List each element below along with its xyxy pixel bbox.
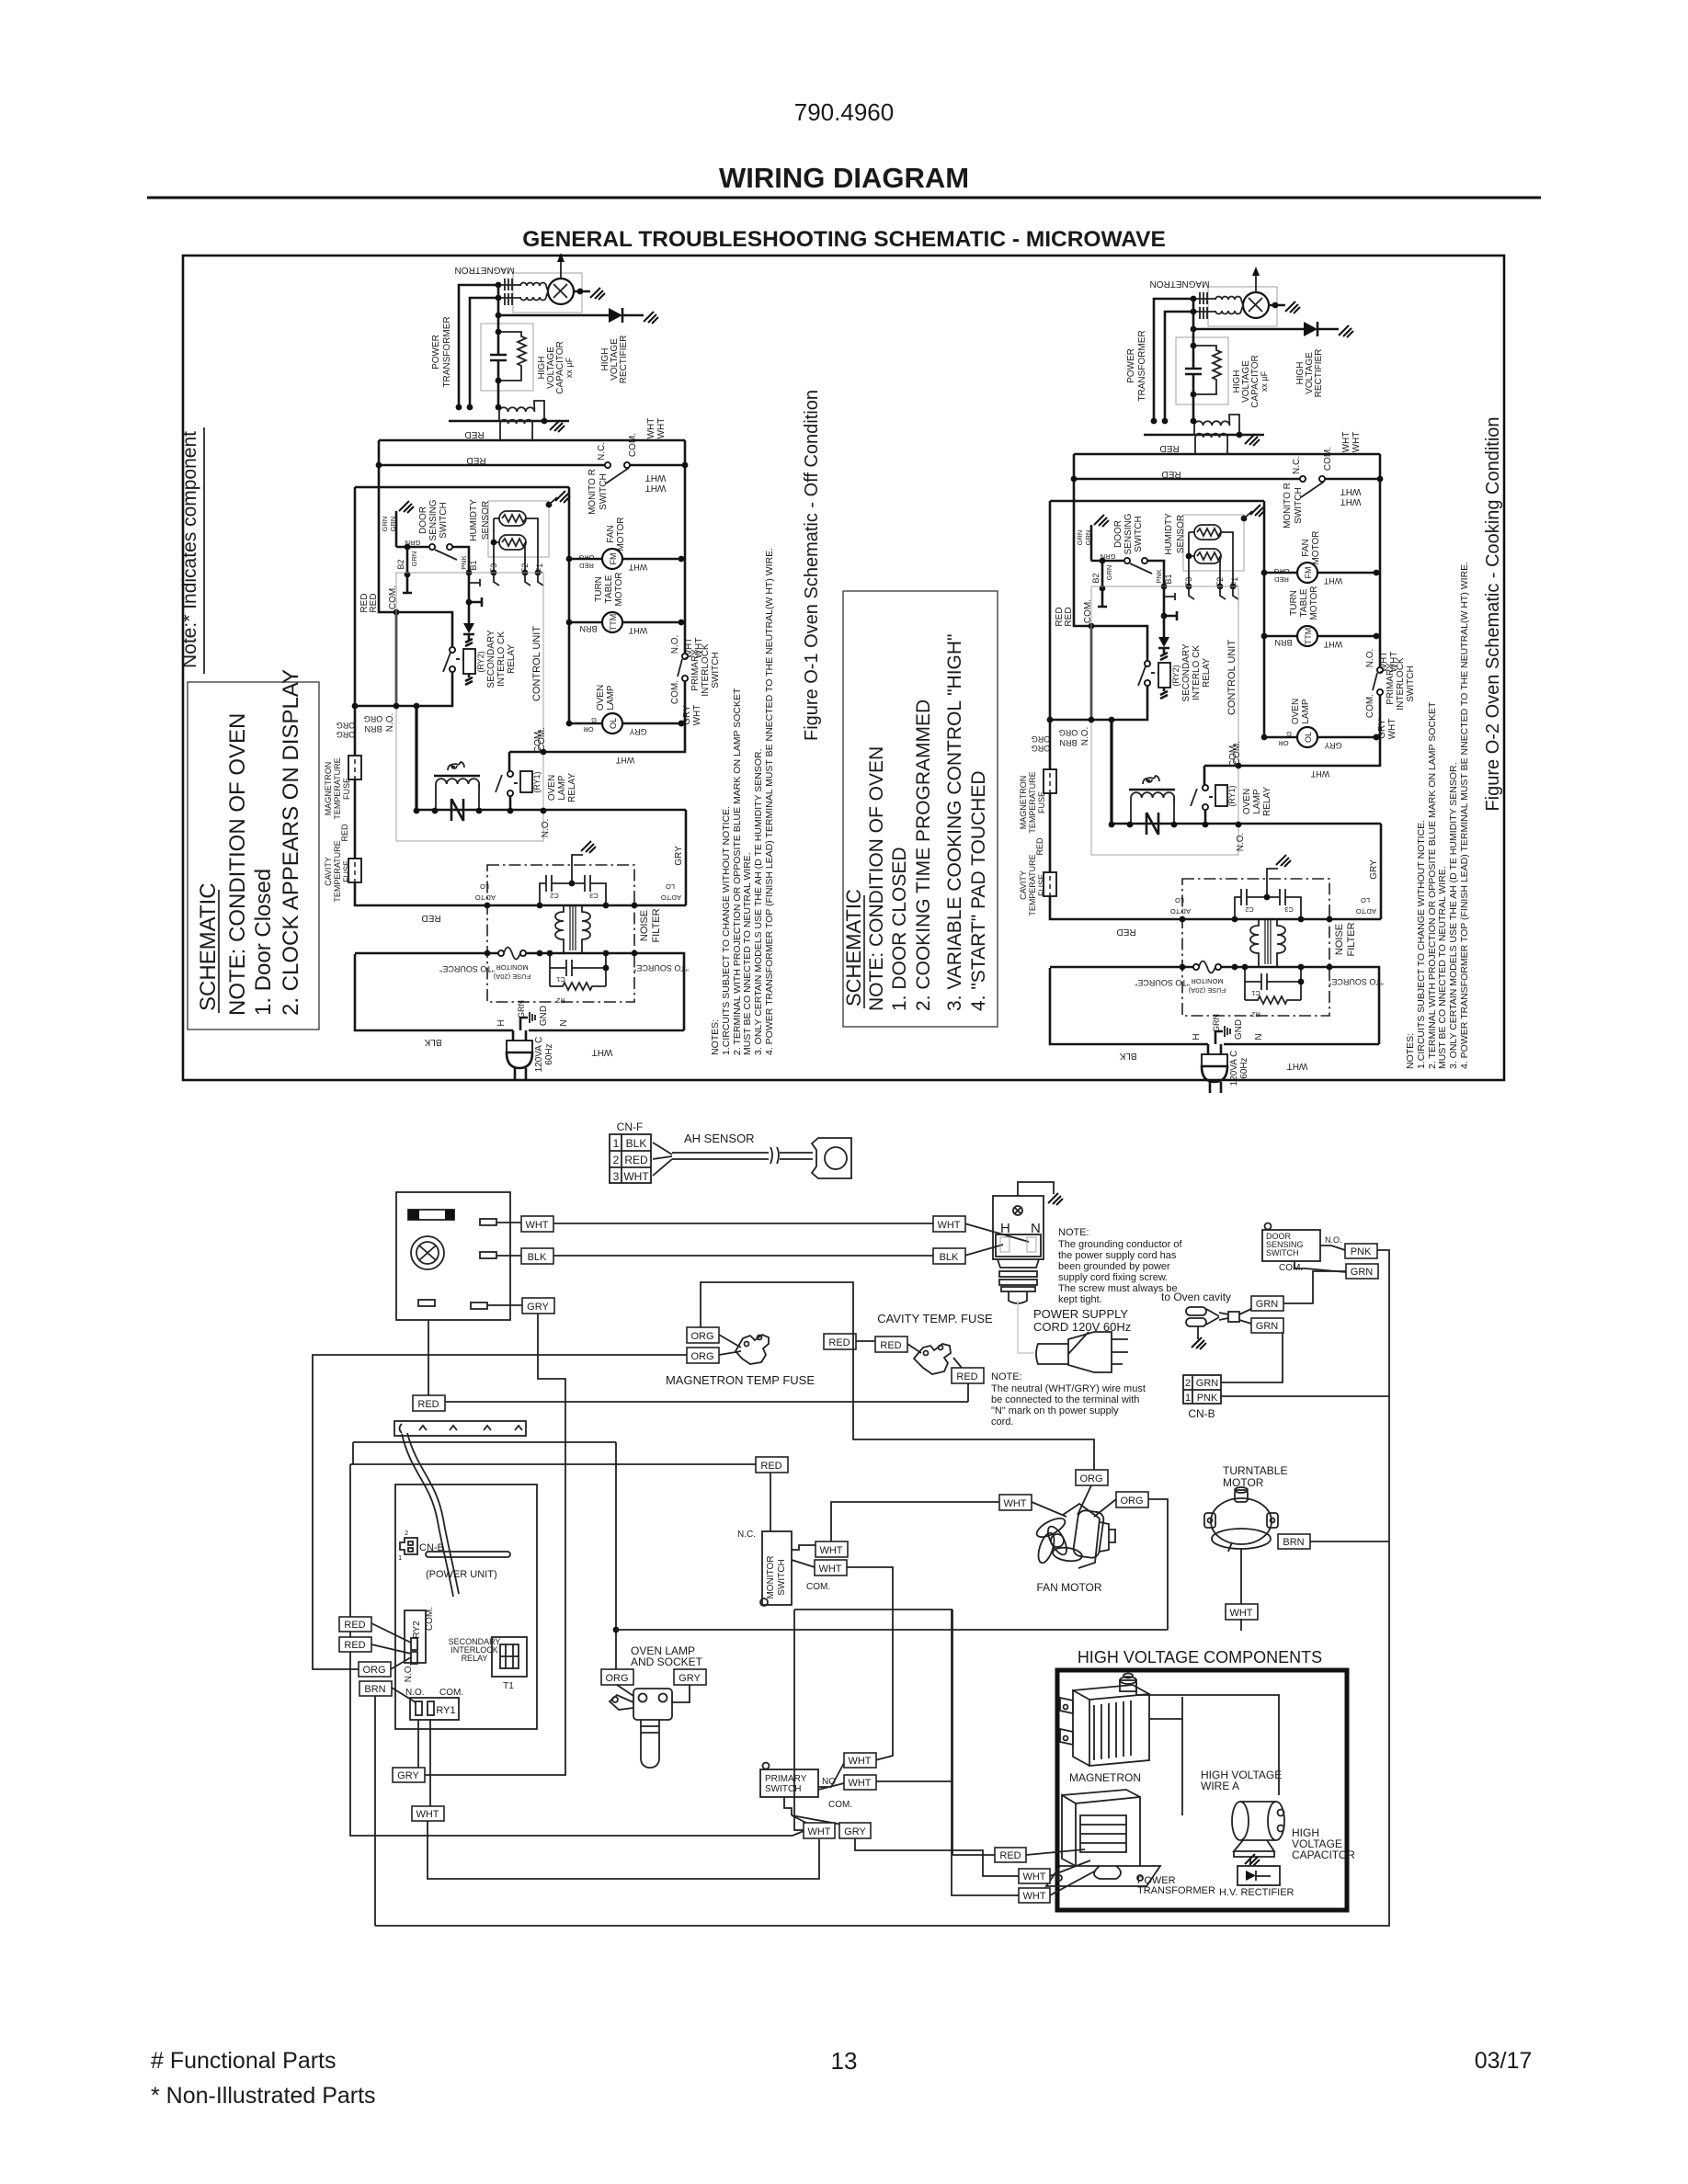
svg-text:LO: LO — [666, 882, 675, 891]
svg-text:kept tight.: kept tight. — [1058, 1294, 1102, 1305]
svg-text:WHT: WHT — [1022, 1871, 1045, 1883]
svg-text:BRN: BRN — [1283, 1537, 1304, 1548]
svg-text:B1: B1 — [469, 560, 478, 570]
svg-text:FAN MOTOR: FAN MOTOR — [1036, 1581, 1101, 1594]
wht under fan — [1226, 1604, 1258, 1620]
hv capacitor 3d — [1232, 1802, 1284, 1857]
svg-text:WHT: WHT — [937, 1220, 960, 1231]
svg-text:MONITO R: MONITO R — [587, 469, 598, 515]
svg-text:N.C.: N.C. — [597, 442, 607, 461]
svg-text:RED: RED — [421, 913, 440, 923]
svg-text:2: 2 — [613, 1154, 620, 1166]
svg-text:RED: RED — [464, 429, 484, 439]
svg-text:MONITOR: MONITOR — [766, 1555, 776, 1598]
AH sensor cable — [653, 1143, 813, 1176]
svg-text:AH SENSOR: AH SENSOR — [684, 1132, 755, 1145]
svg-text:N.O.: N.O. — [385, 713, 395, 733]
svg-text:H.V. RECTIFIER: H.V. RECTIFIER — [1219, 1887, 1295, 1898]
svg-text:HUMIDTY: HUMIDTY — [469, 499, 479, 541]
svg-text:POWER SUPPLY: POWER SUPPLY — [1033, 1307, 1128, 1321]
svg-text:N.O.: N.O. — [404, 1664, 414, 1683]
svg-text:F1: F1 — [535, 563, 544, 574]
svg-text:FUSE: FUSE — [342, 778, 351, 800]
svg-text:CAVITY TEMP. FUSE: CAVITY TEMP. FUSE — [877, 1312, 993, 1325]
noise filter dash-dot box — [487, 865, 634, 1002]
svg-text:3. ONLY CERTAIN MODELS USE TH: 3. ONLY CERTAIN MODELS USE THE AH (D TE … — [753, 748, 764, 1055]
svg-text:4. POWER TRANSFORMER TOP (FINI: 4. POWER TRANSFORMER TOP (FINISH LEAD) T… — [764, 548, 775, 1055]
svg-text:GRN: GRN — [1256, 1299, 1279, 1310]
svg-text:RED: RED — [344, 1640, 365, 1651]
svg-text:RED: RED — [956, 1371, 977, 1382]
control unit box — [396, 573, 543, 841]
svg-text:13: 13 — [831, 2047, 858, 2075]
wire left RED rail with fuses — [355, 487, 686, 905]
svg-text:WHT: WHT — [645, 472, 667, 483]
svg-text:LAMP: LAMP — [606, 685, 616, 711]
svg-text:GRN: GRN — [1256, 1321, 1279, 1332]
svg-text:GRY: GRY — [844, 1826, 866, 1837]
svg-text:3: 3 — [613, 1170, 620, 1183]
svg-text:been grounded by power: been grounded by power — [1058, 1261, 1170, 1272]
svg-text:1: 1 — [1185, 1393, 1191, 1404]
svg-text:be connected to the terminal w: be connected to the terminal with — [991, 1394, 1139, 1405]
svg-text:COM.: COM. — [537, 727, 547, 751]
svg-text:TRANSFORMER: TRANSFORMER — [442, 316, 452, 387]
power unit — [395, 1484, 537, 1729]
HV rectifier diode — [498, 314, 644, 317]
svg-text:3. VARIABLE COOKING CONTROL "H: 3. VARIABLE COOKING CONTROL "HIGH" — [944, 634, 965, 1011]
svg-text:COM.: COM. — [670, 680, 680, 704]
svg-text:WHT: WHT — [646, 418, 656, 439]
svg-text:WHT: WHT — [1003, 1498, 1026, 1509]
svg-text:"N" mark on th power sup: "N" mark on th power supply — [991, 1405, 1119, 1416]
svg-text:TURNTABLE: TURNTABLE — [1223, 1464, 1287, 1477]
wire ORG row — [355, 672, 452, 706]
svg-text:ORG: ORG — [362, 1665, 385, 1676]
svg-text:NOTES:: NOTES: — [710, 1019, 721, 1055]
fan motor drawing — [1034, 1504, 1115, 1568]
svg-text:RED: RED — [369, 593, 379, 612]
svg-text:GRN: GRN — [405, 539, 421, 547]
svg-text:TTM: TTM — [609, 614, 618, 631]
svg-text:GENERAL TROUBLESHOOTING SCHEMA: GENERAL TROUBLESHOOTING SCHEMATIC - MICR… — [522, 227, 1166, 252]
svg-text:60Hz: 60Hz — [544, 1043, 554, 1064]
magnetron temperature fuse — [348, 859, 361, 882]
svg-text:NOTE: CONDITION OF OVEN: NOTE: CONDITION OF OVEN — [225, 713, 250, 1016]
svg-text:2. CLOCK APPEARS ON DISPLAY: 2. CLOCK APPEARS ON DISPLAY — [279, 669, 303, 1016]
svg-text:(RY2): (RY2) — [476, 651, 485, 672]
svg-text:SCHEMATIC: SCHEMATIC — [842, 889, 865, 1007]
door sensing switch — [1265, 1223, 1272, 1230]
svg-text:N.O.: N.O. — [405, 1688, 425, 1698]
svg-text:POWER: POWER — [431, 335, 441, 370]
svg-text:COM.: COM. — [425, 1607, 435, 1631]
svg-text:FILTER: FILTER — [651, 908, 662, 942]
svg-text:ORG: ORG — [690, 1351, 713, 1362]
svg-text:SWITCH: SWITCH — [711, 652, 721, 688]
svg-text:BLK: BLK — [940, 1252, 959, 1263]
turntable motor TTM — [602, 612, 622, 632]
svg-text:RED: RED — [880, 1340, 901, 1351]
filter capacitors C2 C3 — [540, 855, 606, 904]
flat cable — [402, 1433, 459, 1597]
svg-text:1. Door Closed: 1. Door Closed — [251, 869, 276, 1016]
long wire row — [353, 1442, 995, 1855]
svg-text:WHT: WHT — [592, 1047, 613, 1057]
svg-text:ORG: ORG — [605, 1673, 628, 1684]
svg-text:CN-B: CN-B — [419, 1542, 444, 1553]
svg-text:H: H — [496, 1019, 507, 1026]
svg-text:COM.: COM. — [439, 1688, 463, 1698]
C1 and R2 — [550, 953, 606, 986]
svg-text:N.O.: N.O. — [670, 635, 680, 654]
control panel box — [396, 1192, 510, 1320]
svg-text:BLK: BLK — [626, 1137, 647, 1150]
svg-text:OVEN: OVEN — [596, 685, 606, 711]
svg-text:WHT: WHT — [1229, 1608, 1252, 1619]
svg-text:WHT: WHT — [807, 1826, 830, 1837]
svg-text:2. COOKING TIME PROGRAMMED: 2. COOKING TIME PROGRAMMED — [913, 700, 934, 1011]
svg-text:The neutral (WHT/GRY) wire mus: The neutral (WHT/GRY) wire must — [991, 1383, 1146, 1394]
svg-text:G: G — [591, 716, 597, 724]
svg-text:C3: C3 — [589, 892, 599, 900]
svg-text:WHT: WHT — [525, 1220, 548, 1231]
plug drawing — [1036, 1332, 1128, 1372]
svg-text:TURN: TURN — [594, 576, 604, 602]
svg-text:COM.: COM. — [628, 433, 638, 457]
svg-text:RECTIFIER: RECTIFIER — [619, 336, 629, 384]
AH sensor head — [812, 1138, 851, 1178]
svg-text:BRN: BRN — [579, 624, 597, 633]
svg-text:120VA C: 120VA C — [534, 1037, 544, 1073]
magnetron temp fuse — [687, 1327, 719, 1343]
humidity sensor — [488, 501, 549, 557]
svg-text:GRY: GRY — [674, 846, 684, 866]
svg-text:RED: RED — [340, 824, 349, 842]
svg-text:1: 1 — [398, 1553, 402, 1562]
svg-text:1. DOOR CLOSED: 1. DOOR CLOSED — [889, 847, 910, 1011]
svg-text:RY2: RY2 — [412, 1621, 422, 1639]
power inlet terminal block — [1018, 1182, 1054, 1196]
svg-text:RED: RED — [417, 1399, 439, 1410]
red wire from panel — [428, 1320, 429, 1395]
svg-text:GND: GND — [539, 1006, 549, 1026]
svg-text:PNK: PNK — [1351, 1246, 1372, 1257]
svg-text:SWITCH: SWITCH — [439, 502, 449, 538]
svg-text:ORG: ORG — [578, 553, 594, 562]
svg-text:AND SOCKET: AND SOCKET — [631, 1655, 703, 1668]
svg-text:WHT: WHT — [645, 483, 667, 493]
svg-text:790.4960: 790.4960 — [794, 98, 894, 126]
svg-text:MUST BE CO NNECTED TO NEUTRAL: MUST BE CO NNECTED TO NEUTRAL WIRE. — [742, 852, 753, 1055]
svg-text:TABLE: TABLE — [604, 574, 614, 603]
monitor switch — [605, 462, 610, 468]
svg-text:AD': AD' — [670, 893, 681, 902]
svg-text:WHT: WHT — [656, 418, 667, 439]
svg-text:B2: B2 — [396, 559, 405, 569]
svg-text:CN-B: CN-B — [1188, 1407, 1215, 1420]
primary interlock switch — [682, 654, 688, 659]
monitor fuse 20A — [498, 950, 504, 956]
svg-text:PNK: PNK — [460, 555, 468, 569]
svg-text:WHT: WHT — [692, 705, 702, 726]
svg-text:"TO SOURCE": "TO SOURCE" — [439, 964, 495, 973]
svg-text:TO: TO — [475, 893, 485, 902]
svg-text:DOOR: DOOR — [418, 506, 428, 534]
svg-text:xx µF: xx µF — [565, 357, 574, 378]
svg-text:INTERLO CK: INTERLO CK — [496, 631, 507, 687]
svg-text:CORD 120V 60Hz: CORD 120V 60Hz — [1033, 1320, 1131, 1334]
svg-text:SWITCH: SWITCH — [599, 473, 609, 509]
svg-text:AD': AD' — [485, 893, 496, 902]
svg-text:FUSE: FUSE — [342, 860, 351, 882]
svg-text:INTERLOCK: INTERLOCK — [701, 643, 711, 697]
svg-text:RED: RED — [828, 1337, 850, 1348]
hv rectifier — [1249, 1857, 1251, 1864]
svg-text:CAVITY: CAVITY — [324, 857, 333, 886]
monitor switch — [762, 1531, 792, 1605]
svg-text:WHT: WHT — [819, 1545, 842, 1556]
power transformer — [449, 420, 569, 423]
svg-text:cord.: cord. — [991, 1416, 1013, 1428]
svg-text:Note:* Indicates component: Note:* Indicates component — [179, 431, 200, 668]
power transformer 3d — [1046, 1790, 1160, 1886]
svg-text:The grounding conductor of: The grounding conductor of — [1058, 1239, 1182, 1250]
cavity temperature fuse — [348, 756, 361, 779]
left note box — [188, 682, 319, 1029]
svg-text:Figure O-1 Oven Schematic - Of: Figure O-1 Oven Schematic - Off Conditio… — [802, 390, 822, 741]
RY2 secondary interlock relay — [405, 1610, 426, 1663]
svg-text:N.O.: N.O. — [541, 819, 551, 838]
svg-text:BLK: BLK — [424, 1037, 441, 1047]
svg-text:03/17: 03/17 — [1475, 2048, 1533, 2074]
svg-text:RED: RED — [624, 1154, 648, 1166]
wht to fan — [831, 1502, 999, 1541]
power plug 120VAC — [513, 1018, 528, 1041]
svg-text:GRY: GRY — [679, 1673, 701, 1684]
svg-text:Figure O-2 Oven Schematic - Co: Figure O-2 Oven Schematic - Cooking Cond… — [1483, 416, 1503, 811]
svg-text:LAMP: LAMP — [557, 775, 567, 801]
svg-text:SCHEMATIC: SCHEMATIC — [196, 882, 221, 1011]
svg-text:2: 2 — [405, 1529, 408, 1537]
svg-text:# Functional Parts: # Functional Parts — [151, 2048, 336, 2074]
svg-text:NOTE:: NOTE: — [1058, 1227, 1089, 1238]
fan motor FM — [602, 549, 622, 569]
svg-text:TO: TO — [661, 893, 670, 902]
svg-text:"TO SOURCE": "TO SOURCE" — [633, 963, 689, 973]
outer schematic box — [183, 256, 1504, 1080]
svg-text:F2: F2 — [520, 563, 530, 574]
svg-text:SENSOR: SENSOR — [481, 501, 491, 540]
primary coil — [500, 420, 532, 440]
CN-B table — [1183, 1375, 1221, 1404]
svg-text:SECONDARY: SECONDARY — [486, 630, 496, 688]
svg-text:SENSING: SENSING — [428, 499, 439, 540]
wht blk gry labels — [521, 1216, 553, 1232]
svg-text:GRN: GRN — [1196, 1378, 1219, 1389]
HV secondary coil — [499, 401, 544, 421]
svg-text:PRIMARY: PRIMARY — [690, 649, 701, 691]
dots on filter rows — [485, 903, 491, 909]
svg-text:COM.: COM. — [828, 1800, 852, 1810]
svg-text:MAGNETRON: MAGNETRON — [1069, 1771, 1141, 1784]
svg-text:ORG: ORG — [336, 721, 356, 730]
svg-text:GRN: GRN — [517, 1000, 526, 1018]
svg-text:RELAY: RELAY — [462, 1654, 488, 1663]
wht long loop down to primary switch area — [847, 1567, 893, 1760]
orange boxes near fan — [1076, 1470, 1108, 1485]
svg-text:F3: F3 — [489, 563, 498, 574]
svg-text:RED: RED — [466, 455, 485, 465]
SCHEM — [313, 1120, 1389, 1926]
svg-text:WIRING DIAGRAM: WIRING DIAGRAM — [719, 162, 969, 194]
svg-text:GRY: GRY — [629, 727, 646, 736]
svg-text:MAGNETRON: MAGNETRON — [324, 762, 333, 816]
filter rows — [355, 953, 684, 1030]
svg-text:GRN: GRN — [389, 517, 397, 532]
svg-text:OVEN: OVEN — [547, 775, 557, 801]
svg-text:RELAY: RELAY — [567, 773, 577, 802]
svg-text:ORG: ORG — [364, 714, 383, 723]
svg-text:GRN: GRN — [410, 552, 418, 567]
svg-text:WHT: WHT — [1022, 1891, 1045, 1902]
gray wire down — [423, 1314, 565, 1775]
svg-text:WHT: WHT — [615, 756, 634, 765]
svg-text:N: N — [559, 1019, 569, 1026]
svg-text:C2: C2 — [550, 892, 559, 900]
svg-text:OR: OR — [583, 725, 594, 734]
svg-text:NOTE:: NOTE: — [991, 1371, 1022, 1382]
svg-text:HIGH VOLTAGE COMPONENTS: HIGH VOLTAGE COMPONENTS — [1078, 1648, 1322, 1666]
RED to monitor switch — [350, 1464, 804, 1836]
primary switch — [763, 1763, 770, 1769]
svg-text:(RY1): (RY1) — [532, 771, 542, 792]
right note box — [843, 591, 998, 1027]
wire control column — [415, 706, 417, 811]
svg-text:WIRE A: WIRE A — [1201, 1780, 1239, 1792]
high voltage capacitor — [481, 324, 533, 391]
bracket strip — [394, 1421, 526, 1436]
svg-text:MAGNETRON TEMP FUSE: MAGNETRON TEMP FUSE — [666, 1373, 815, 1387]
svg-text:RED: RED — [999, 1850, 1021, 1861]
svg-text:GRN: GRN — [381, 517, 389, 532]
wire rails — [379, 440, 685, 771]
secondary interlock relay RY2 — [469, 573, 482, 623]
svg-text:C1: C1 — [556, 975, 565, 984]
svg-text:MAGNETRON: MAGNETRON — [455, 265, 515, 275]
svg-text:BRN: BRN — [364, 724, 382, 734]
svg-text:(POWER UNIT): (POWER UNIT) — [426, 1569, 497, 1580]
svg-text:MONITOR: MONITOR — [496, 963, 529, 972]
svg-text:FAN: FAN — [606, 525, 616, 542]
svg-text:N.C.: N.C. — [737, 1530, 756, 1540]
svg-text:FM: FM — [609, 553, 618, 565]
svg-text:TRANSFORMER: TRANSFORMER — [1137, 1885, 1215, 1896]
oven lamp relay RY1 — [508, 771, 513, 777]
svg-text:supply cord fixing screw.: supply cord fixing screw. — [1058, 1272, 1168, 1283]
svg-text:RED: RED — [344, 1620, 365, 1631]
filter transformer coils — [555, 904, 564, 953]
svg-text:the power supply cord has: the power supply cord has — [1058, 1250, 1177, 1261]
svg-text:BRN: BRN — [364, 1684, 385, 1695]
magnetron 3d — [1060, 1674, 1149, 1767]
gry/wht lower-left labels — [393, 1768, 425, 1782]
svg-text:PRIMARY: PRIMARY — [765, 1774, 807, 1784]
svg-text:CAPACITOR: CAPACITOR — [1292, 1848, 1355, 1861]
svg-text:NOISE: NOISE — [639, 910, 650, 941]
svg-text:* Non-Illustrated Parts: * Non-Illustrated Parts — [151, 2083, 376, 2109]
svg-text:CONTROL UNIT: CONTROL UNIT — [531, 626, 542, 701]
svg-text:WHT: WHT — [848, 1778, 871, 1789]
svg-text:SWITCH: SWITCH — [1266, 1248, 1299, 1257]
oven lamp transformer with N — [434, 775, 480, 778]
svg-text:ORG: ORG — [336, 730, 356, 739]
svg-text:GRY: GRY — [397, 1770, 419, 1781]
svg-text:SWITCH: SWITCH — [777, 1559, 787, 1595]
svg-text:RY1: RY1 — [436, 1705, 455, 1716]
svg-text:TEMPERATURE: TEMPERATURE — [333, 757, 342, 819]
pink long loop — [375, 1250, 1389, 1926]
svg-text:CN-F: CN-F — [617, 1120, 644, 1133]
long wires to inlet — [553, 1223, 1029, 1256]
svg-text:RELAY: RELAY — [507, 644, 517, 674]
svg-text:WHT: WHT — [623, 1170, 649, 1183]
svg-text:SWITCH: SWITCH — [765, 1784, 801, 1794]
ground terminal drawing — [1186, 1307, 1251, 1339]
org long loop — [313, 1355, 687, 1669]
svg-text:WHT: WHT — [628, 626, 647, 635]
svg-text:1.CIRCUITS SUBJECT TO CHANGE W: 1.CIRCUITS SUBJECT TO CHANGE WITHOUT NOT… — [721, 806, 732, 1055]
svg-text:GRY: GRY — [527, 1302, 549, 1313]
svg-text:ORG: ORG — [1079, 1473, 1102, 1484]
svg-text:OL: OL — [609, 718, 618, 729]
svg-text:GRN: GRN — [1351, 1267, 1374, 1278]
svg-text:N.O.: N.O. — [1325, 1235, 1342, 1245]
svg-text:1: 1 — [613, 1137, 620, 1150]
svg-text:The screw must always be: The screw must always be — [1058, 1283, 1178, 1294]
door sensing switch — [396, 511, 469, 593]
svg-text:4. "START" PAD TOUCHED: 4. "START" PAD TOUCHED — [968, 770, 989, 1011]
B2 COM labels — [414, 808, 420, 814]
svg-text:MOTOR: MOTOR — [614, 572, 624, 606]
svg-text:RED: RED — [579, 562, 594, 570]
svg-text:FUSE (20A): FUSE (20A) — [493, 973, 530, 981]
svg-text:2: 2 — [1185, 1378, 1191, 1389]
svg-text:WHT: WHT — [818, 1564, 841, 1575]
svg-text:R2: R2 — [556, 996, 565, 1005]
svg-text:WHT: WHT — [848, 1756, 871, 1767]
svg-text:ORG: ORG — [1120, 1496, 1143, 1507]
svg-text:LO: LO — [480, 882, 489, 891]
svg-text:to Oven cavity: to Oven cavity — [1161, 1291, 1231, 1303]
oven lamp OL — [602, 713, 622, 734]
svg-text:BLK: BLK — [528, 1252, 547, 1263]
svg-text:WHT: WHT — [628, 563, 647, 572]
svg-text:ORG: ORG — [690, 1331, 713, 1342]
svg-text:WHT: WHT — [416, 1809, 439, 1820]
svg-text:COM.: COM. — [806, 1582, 830, 1592]
svg-text:RED: RED — [760, 1461, 781, 1472]
wire top row to motors — [355, 487, 569, 724]
motor rows — [569, 559, 681, 723]
T1 transformer — [492, 1637, 527, 1677]
boxes at hv left — [995, 1848, 1026, 1862]
svg-text:NOTE: CONDITION OF OVEN: NOTE: CONDITION OF OVEN — [866, 746, 887, 1011]
svg-text:TEMPERATURE: TEMPERATURE — [333, 840, 342, 902]
svg-text:T1: T1 — [503, 1681, 514, 1691]
magnetron — [513, 273, 582, 313]
svg-text:PNK: PNK — [1197, 1393, 1218, 1404]
